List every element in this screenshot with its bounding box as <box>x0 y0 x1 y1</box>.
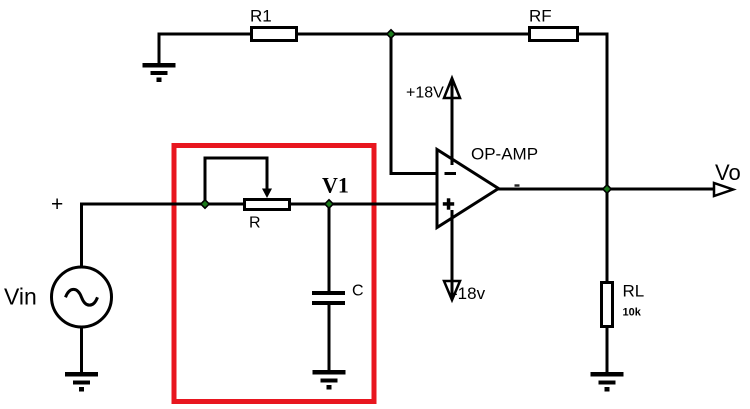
wire: op-amp output <box>498 188 714 191</box>
junction: node V1 <box>325 200 333 208</box>
resistor R1 <box>252 28 297 41</box>
output arrow <box>714 183 733 196</box>
junction: pot left node <box>201 200 209 208</box>
resistor RF <box>530 28 578 41</box>
svg-text:RL: RL <box>623 282 645 301</box>
svg-text:OP-AMP: OP-AMP <box>471 145 538 164</box>
stray mark <box>515 184 520 186</box>
svg-text:V1: V1 <box>322 173 349 198</box>
wire: RL to ground <box>606 328 609 373</box>
svg-text:Vin: Vin <box>4 284 37 310</box>
svg-text:10k: 10k <box>623 307 642 319</box>
potentiometer arrow <box>262 189 272 199</box>
wire: ground stub to R1 (top-left) <box>159 34 251 64</box>
capacitor C <box>312 291 345 305</box>
svg-text:R: R <box>249 215 261 232</box>
ground (Vin) <box>65 372 98 392</box>
ground (RL) <box>591 372 624 392</box>
wire: V1 node down to capacitor <box>328 204 331 291</box>
svg-text:Vo: Vo <box>715 160 741 185</box>
-18V supply arrow <box>444 210 460 300</box>
wire: input line from source to non-inverting input <box>82 204 438 266</box>
svg-text:-18v: -18v <box>452 284 486 303</box>
ground (C) <box>313 370 346 390</box>
+18V supply arrow <box>444 78 460 165</box>
svg-text:+18V: +18V <box>406 85 444 102</box>
wire: capacitor to ground <box>328 305 331 371</box>
wire: source to ground <box>80 326 83 373</box>
svg-text:+: + <box>51 193 63 216</box>
resistor RL <box>602 283 613 327</box>
wire: RF right, down to RL top (feedback/output column) <box>578 34 607 282</box>
ground (top-left) <box>143 63 176 82</box>
highlight box (red) <box>174 146 374 402</box>
svg-text:C: C <box>352 283 364 300</box>
source Vin (AC) <box>52 267 112 327</box>
resistor R (pot body) <box>245 200 290 210</box>
svg-text:R1: R1 <box>250 7 272 26</box>
junction: output node <box>603 185 611 193</box>
wire: R1 to RF along top rail <box>297 33 529 36</box>
junction: top rail node <box>387 30 395 38</box>
wire: inverting input from top-rail junction <box>391 34 437 174</box>
wire: potentiometer wiper loop <box>205 158 267 204</box>
op-amp U1 <box>437 150 499 228</box>
svg-text:RF: RF <box>529 7 552 26</box>
